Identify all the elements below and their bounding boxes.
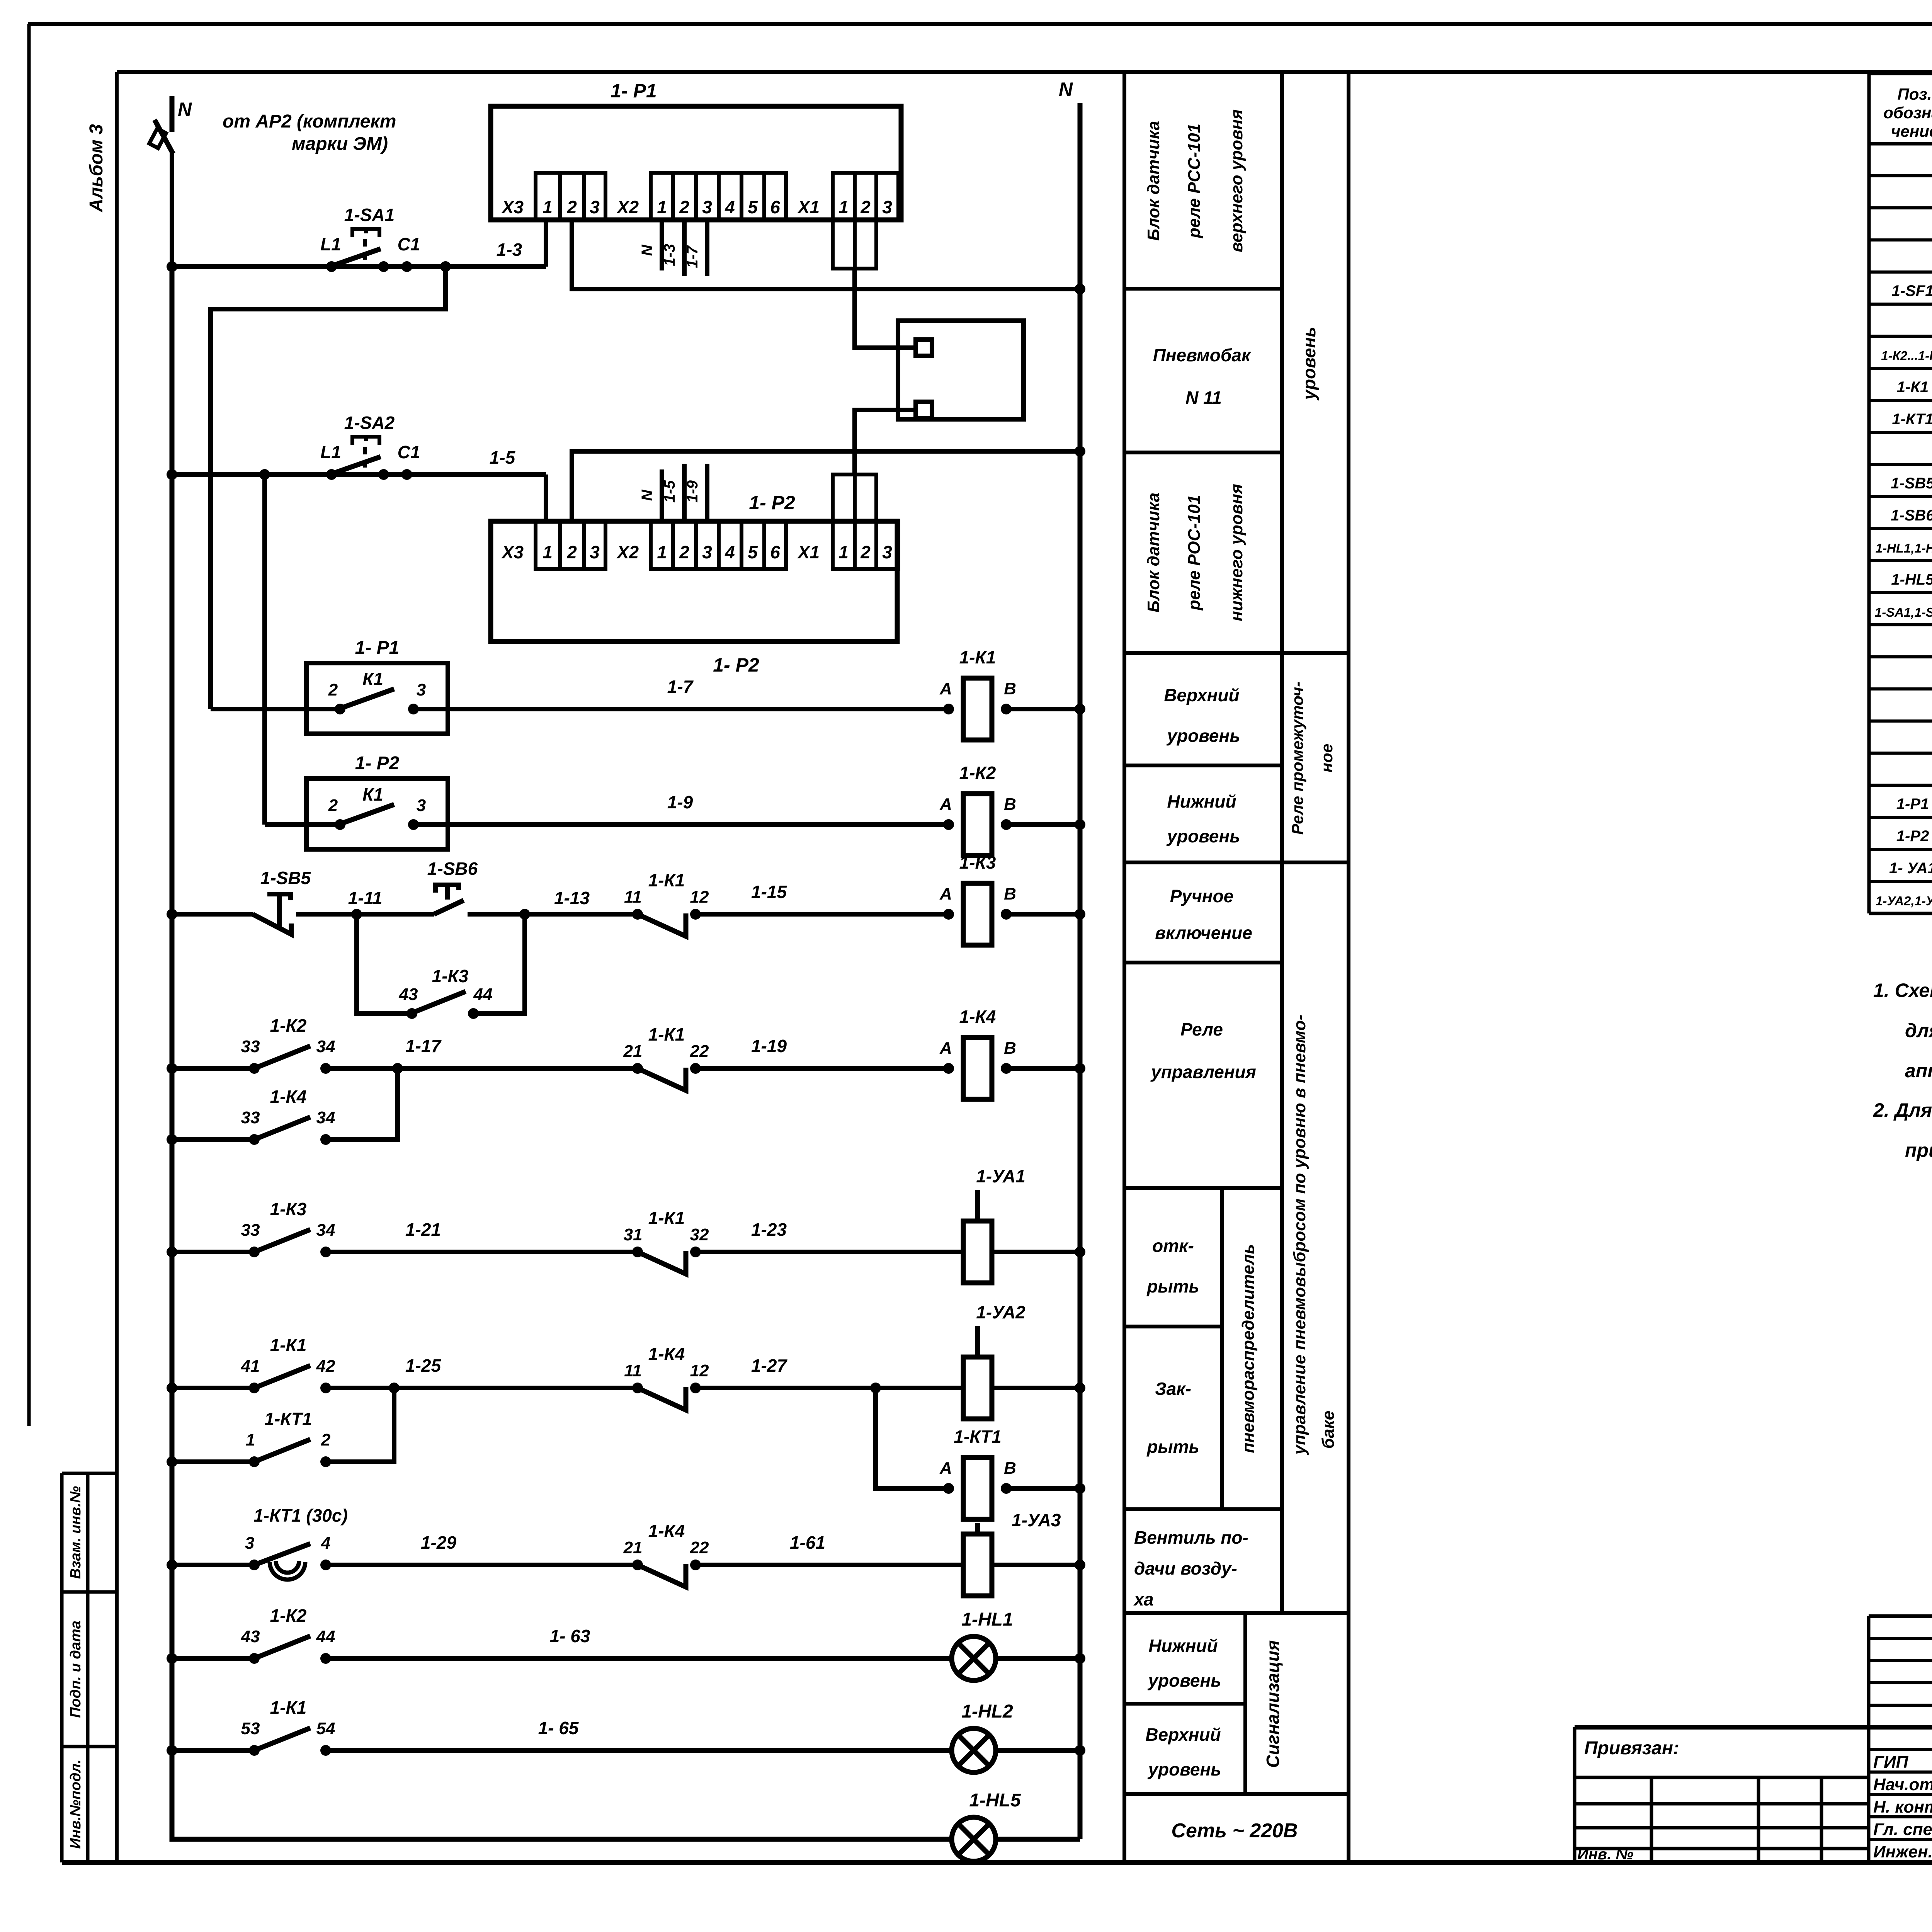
pneumatic tank N11 box — [898, 321, 1024, 419]
label cell отк-рыть — [1146, 1236, 1199, 1296]
wire coil 1-K1 to N rail — [1006, 707, 1080, 711]
relay coil 1-K4 — [939, 1007, 1016, 1099]
svg-text:1-УА1: 1-УА1 — [976, 1166, 1025, 1186]
wire coil 1-K2 to N rail — [1006, 822, 1080, 827]
wire rung 2 (1-SA2, circuit 1-5) — [172, 472, 546, 477]
svg-text:Инжен.: Инжен. — [1873, 1842, 1932, 1861]
svg-text:1-19: 1-19 — [751, 1036, 787, 1056]
svg-text:1-К2: 1-К2 — [270, 1015, 307, 1036]
svg-text:аппаратуры и маркировке: аппаратуры и маркировке цепей о „ 1” на … — [1905, 1060, 1932, 1082]
svg-text:С1: С1 — [398, 442, 420, 462]
svg-text:1: 1 — [246, 1430, 255, 1449]
label cell управление пневмовыбросом по уровню в пневмобаке (rotated) — [1290, 1015, 1338, 1456]
wire rung 7 start — [172, 1250, 254, 1254]
svg-text:1-Р2: 1-Р2 — [1896, 828, 1929, 845]
wire valve 1-UA3 to N rail — [992, 1563, 1080, 1567]
junction for K4 branch — [392, 1063, 403, 1074]
svg-text:32: 32 — [690, 1225, 709, 1244]
svg-text:1-К2: 1-К2 — [270, 1605, 307, 1626]
svg-text:2: 2 — [328, 680, 338, 699]
svg-text:2: 2 — [328, 796, 338, 815]
contact K1 of 1-P2 — [328, 784, 426, 830]
wire label 1-65 to lamp HL2 — [326, 1748, 952, 1753]
svg-text:1-11: 1-11 — [348, 888, 383, 908]
junction on rung 1 — [440, 261, 451, 272]
svg-text:пневмораспределитель: пневмораспределитель — [1239, 1244, 1258, 1453]
relay coil 1-K3 — [939, 852, 1016, 945]
signal lamp 1-HL1 — [952, 1609, 1013, 1680]
wire rung 4 (circuit 1-9) — [265, 822, 340, 827]
svg-text:1-К2...1-К4: 1-К2...1-К4 — [1881, 349, 1932, 363]
svg-text:22: 22 — [690, 1538, 709, 1557]
svg-text:1-15: 1-15 — [751, 882, 787, 902]
svg-text:1-SB6: 1-SB6 — [427, 859, 478, 879]
pneumotank lower level contact square — [916, 402, 932, 418]
svg-text:Инв. №: Инв. № — [1577, 1846, 1633, 1863]
svg-text:5: 5 — [748, 197, 758, 217]
svg-text:53: 53 — [241, 1719, 260, 1738]
svg-text:Гл. спец.: Гл. спец. — [1873, 1820, 1932, 1839]
svg-text:1-SB5: 1-SB5 — [1891, 475, 1932, 492]
wire coil 1-K4 to N rail — [1006, 1066, 1080, 1071]
svg-text:X1: X1 — [797, 197, 820, 217]
wire stubs N,1-3,1-7 under 1-P1 X2 — [660, 220, 664, 270]
wire rung2 down to 1-P2 X3:1 — [544, 474, 548, 521]
svg-text:1-К1: 1-К1 — [270, 1335, 307, 1355]
inner frame top — [117, 70, 1932, 74]
svg-text:1-7: 1-7 — [684, 245, 701, 268]
svg-text:обозна-: обозна- — [1883, 104, 1932, 122]
svg-text:Верхний: Верхний — [1164, 685, 1239, 705]
branch rung with contact 1-KT1 1/2 — [167, 1388, 394, 1467]
wire valve 1-UA2 to N rail — [992, 1386, 1080, 1390]
parts table header — [1883, 85, 1932, 140]
svg-text:1-SA1: 1-SA1 — [344, 205, 395, 225]
svg-text:3: 3 — [590, 542, 600, 562]
wire rung 3 (circuit 1-7) — [211, 707, 340, 711]
svg-text:Блок датчика: Блок датчика — [1144, 121, 1163, 241]
svg-text:11: 11 — [624, 1361, 642, 1380]
svg-text:X3: X3 — [501, 197, 524, 217]
svg-text:ха: ха — [1133, 1589, 1154, 1609]
drawing outer frame top — [28, 22, 1932, 26]
label cell Нижний уровень — [1166, 791, 1240, 846]
svg-text:1-25: 1-25 — [405, 1355, 441, 1376]
switch 1-SA1 — [320, 205, 420, 272]
wire lamp HL5 to N rail — [996, 1837, 1080, 1842]
svg-text:1-7: 1-7 — [667, 677, 694, 697]
svg-text:6: 6 — [770, 197, 780, 217]
svg-text:Поз.: Поз. — [1898, 85, 1932, 103]
svg-text:отк-: отк- — [1152, 1236, 1194, 1256]
svg-text:1-УА2,1-УА3: 1-УА2,1-УА3 — [1876, 894, 1932, 908]
svg-text:Нижний: Нижний — [1148, 1636, 1218, 1656]
svg-text:1-НL2: 1-НL2 — [961, 1701, 1013, 1722]
wire 1-P2 X3:2 to N rail — [572, 451, 1080, 521]
svg-text:1-К1: 1-К1 — [648, 1208, 685, 1228]
svg-text:1-17: 1-17 — [405, 1036, 442, 1056]
svg-text:верхнего уровня: верхнего уровня — [1227, 109, 1246, 252]
svg-text:1-9: 1-9 — [684, 480, 701, 503]
wire after contact, label 1-21 — [326, 1250, 638, 1254]
svg-text:В: В — [1004, 795, 1016, 814]
contact 1-K2 33/34 — [241, 1015, 335, 1074]
svg-text:1-НL5: 1-НL5 — [1891, 571, 1932, 588]
svg-text:1-К1: 1-К1 — [270, 1697, 307, 1718]
contact 1-K1 53/54 — [241, 1697, 335, 1756]
svg-text:1- Р2: 1- Р2 — [713, 654, 759, 676]
left stamp table — [60, 1473, 64, 1862]
svg-text:рыть: рыть — [1146, 1276, 1199, 1296]
svg-text:дачи возду-: дачи возду- — [1134, 1558, 1237, 1578]
label cell Пневмобак N11 — [1153, 345, 1252, 408]
left supply rail L1 — [170, 267, 175, 1839]
svg-text:2: 2 — [679, 542, 689, 562]
wire rung 5 start — [172, 912, 253, 917]
wire after SB6 to junction 1-13 — [468, 912, 638, 917]
svg-text:4: 4 — [321, 1534, 330, 1553]
svg-text:Нижний: Нижний — [1167, 791, 1236, 811]
wire rung 6 start — [172, 1066, 254, 1071]
svg-text:1-НL5: 1-НL5 — [969, 1790, 1021, 1811]
label cell Верхний уровень (signal) — [1145, 1725, 1221, 1779]
svg-text:Реле: Реле — [1180, 1019, 1223, 1039]
svg-text:3: 3 — [245, 1534, 254, 1553]
NC contact 1-K1 21/22 — [623, 1024, 709, 1090]
terminal stub cells above 1-P2 X1 — [833, 474, 855, 521]
svg-text:1- УА1: 1- УА1 — [1889, 860, 1932, 877]
svg-text:1-SA2: 1-SA2 — [344, 413, 395, 433]
svg-text:31: 31 — [624, 1225, 643, 1244]
svg-text:21: 21 — [623, 1538, 643, 1557]
svg-text:Вентиль по-: Вентиль по- — [1134, 1527, 1248, 1548]
solenoid valve coil 1-UA3 — [963, 1510, 1061, 1596]
svg-text:1-К2: 1-К2 — [959, 763, 996, 783]
wire rung1 up to 1-P1 X3:1 — [544, 220, 548, 267]
svg-text:1-5: 1-5 — [661, 480, 678, 503]
inner frame left — [115, 72, 119, 1862]
svg-text:X2: X2 — [616, 542, 639, 562]
wire N entry down to first rung — [170, 153, 174, 267]
svg-text:В: В — [1004, 679, 1016, 698]
svg-text:34: 34 — [316, 1221, 335, 1240]
contact box 1-P1 (K1 upper level) — [306, 663, 448, 734]
timed contact 1-KT1 (30c) 3/4 — [245, 1505, 348, 1580]
contact 1-K2 43/44 — [241, 1605, 335, 1664]
svg-text:1-29: 1-29 — [421, 1532, 456, 1553]
svg-text:X1: X1 — [797, 542, 820, 562]
svg-text:чение: чение — [1891, 122, 1932, 140]
contact 1-K3 33/34 — [241, 1199, 335, 1257]
title block signature table grid — [1869, 1616, 1932, 1862]
wire 1-9 to coil 1-K2 — [413, 822, 949, 827]
label cell Нижний уровень (signal) — [1147, 1636, 1221, 1690]
parts table grid — [1869, 73, 1932, 913]
solenoid valve coil 1-UA2 — [963, 1302, 1026, 1419]
svg-text:12: 12 — [690, 888, 709, 906]
svg-text:1- Р2: 1- Р2 — [355, 753, 400, 774]
svg-text:1- 65: 1- 65 — [538, 1718, 579, 1738]
svg-text:X2: X2 — [616, 197, 639, 217]
svg-text:Н. контр.: Н. контр. — [1873, 1798, 1932, 1816]
svg-text:1: 1 — [543, 542, 553, 562]
svg-text:34: 34 — [316, 1108, 335, 1127]
svg-text:43: 43 — [241, 1627, 260, 1646]
svg-text:Зак-: Зак- — [1155, 1379, 1191, 1399]
NC contact 1-K1 11/12 — [624, 870, 709, 936]
svg-text:ГИП: ГИП — [1873, 1753, 1909, 1772]
svg-text:Сигнализация: Сигнализация — [1263, 1640, 1283, 1768]
svg-text:42: 42 — [316, 1357, 335, 1376]
wire label 1-15 to coil 1-K3 — [696, 912, 949, 917]
svg-text:1-К3: 1-К3 — [270, 1199, 307, 1219]
signal lamp 1-HL5 — [952, 1790, 1021, 1861]
label cell Реле промежуточное (rotated) — [1288, 682, 1336, 835]
svg-text:нижнего уровня: нижнего уровня — [1227, 484, 1246, 621]
svg-text:2: 2 — [321, 1430, 331, 1449]
svg-text:6: 6 — [770, 542, 780, 562]
disconnect switch on N input — [155, 120, 173, 154]
junction on rung 2 — [259, 469, 270, 480]
junction to 1-KT1 coil branch — [870, 1383, 881, 1393]
svg-text:1-УА3: 1-УА3 — [1012, 1510, 1061, 1530]
svg-text:1-К3: 1-К3 — [432, 966, 469, 986]
svg-text:реле РСС-101: реле РСС-101 — [1185, 124, 1204, 238]
svg-text:В: В — [1004, 1459, 1016, 1478]
svg-text:N: N — [178, 99, 192, 120]
svg-text:от АР2 (комплект: от АР2 (комплект — [223, 111, 396, 132]
self-hold branch via contact 1-K3 43/44 — [357, 914, 525, 1019]
svg-text:43: 43 — [399, 985, 418, 1004]
wire 1-P1 X1 to pneumatic tank upper contact — [855, 269, 916, 348]
svg-text:управление пневмовыбросом по: управление пневмовыбросом по уровню в пн… — [1290, 1015, 1309, 1456]
svg-text:рыть: рыть — [1146, 1437, 1199, 1457]
svg-text:А: А — [939, 679, 952, 698]
relay coil 1-K1 — [939, 647, 1016, 740]
wire rung 8 start — [172, 1386, 254, 1390]
svg-text:1: 1 — [657, 542, 667, 562]
svg-text:Реле промежуточ-: Реле промежуточ- — [1288, 682, 1306, 835]
svg-text:2: 2 — [566, 197, 577, 217]
svg-text:реле РОС-101: реле РОС-101 — [1185, 495, 1204, 611]
label cell Зак-рыть — [1146, 1379, 1199, 1457]
wire rung 10 start — [172, 1563, 254, 1567]
pneumotank upper level contact square — [916, 340, 932, 356]
svg-text:L1: L1 — [320, 442, 341, 462]
svg-text:3: 3 — [882, 197, 892, 217]
time relay coil 1-KT1 — [939, 1427, 1016, 1519]
svg-text:4: 4 — [724, 197, 735, 217]
svg-text:34: 34 — [316, 1037, 335, 1056]
svg-text:1- Р1: 1- Р1 — [611, 80, 657, 102]
svg-text:управления: управления — [1150, 1062, 1256, 1082]
wire label 1-23 to valve 1-UA1 — [696, 1250, 963, 1254]
svg-text:2: 2 — [566, 542, 577, 562]
contact K1 of 1-P1 — [328, 669, 426, 714]
svg-text:1-23: 1-23 — [751, 1219, 787, 1240]
label cell Блок датчика реле РОС-101 нижнего уровня — [1144, 484, 1246, 621]
svg-text:1- Р1: 1- Р1 — [355, 638, 400, 658]
svg-text:1-SА1,1-SА2: 1-SА1,1-SА2 — [1875, 605, 1932, 619]
svg-text:1: 1 — [657, 197, 667, 217]
wire after contact, label 1-29 — [326, 1563, 638, 1567]
svg-text:54: 54 — [316, 1719, 335, 1738]
svg-text:1-5: 1-5 — [490, 447, 516, 468]
svg-text:для другого пневмобака с з: для другого пневмобака с заменой индекса… — [1905, 1020, 1932, 1041]
svg-text:N: N — [1059, 78, 1073, 100]
svg-text:Альбом 3: Альбом 3 — [86, 124, 107, 213]
svg-text:N 11: N 11 — [1185, 388, 1222, 408]
svg-text:X3: X3 — [501, 542, 524, 562]
svg-text:44: 44 — [316, 1627, 335, 1646]
svg-text:А: А — [939, 1039, 952, 1058]
wire rung 1 (1-SA1, circuit 1-3) — [172, 264, 546, 269]
wire lamp HL2 to N rail — [996, 1748, 1080, 1753]
contact box 1-P2 (K1 lower level) — [306, 779, 448, 849]
wire feeder from rung2 down to 1-P2 K1 rung — [262, 474, 267, 825]
svg-text:3: 3 — [882, 542, 892, 562]
junction node 1-11 — [351, 909, 362, 920]
svg-text:33: 33 — [241, 1108, 260, 1127]
svg-text:1-9: 1-9 — [667, 792, 693, 812]
level sensor relay block 1-P1 — [491, 80, 901, 220]
svg-text:Блок датчика: Блок датчика — [1144, 493, 1163, 613]
svg-text:1-SB6: 1-SB6 — [1891, 507, 1932, 524]
svg-text:L1: L1 — [320, 234, 341, 254]
parallel branch contact 1-K4 33/34 — [167, 1068, 398, 1145]
NC contact 1-K4 11/12 — [624, 1344, 709, 1410]
svg-text:1: 1 — [543, 197, 553, 217]
svg-text:N: N — [639, 244, 656, 256]
svg-text:Подп. и дата: Подп. и дата — [68, 1621, 84, 1718]
NC contact 1-K4 21/22 — [623, 1521, 709, 1587]
svg-text:1-3: 1-3 — [497, 240, 522, 260]
svg-text:2: 2 — [679, 197, 689, 217]
svg-text:Сеть ~ 220В: Сеть ~ 220В — [1171, 1820, 1298, 1842]
level sensor relay block 1-P2 — [491, 492, 898, 676]
svg-text:21: 21 — [623, 1042, 643, 1061]
svg-text:уровень: уровень — [1147, 1670, 1221, 1690]
svg-text:Привязан:: Привязан: — [1584, 1738, 1679, 1759]
label cell Блок датчика реле РСС-101 верхнего уровня — [1144, 109, 1246, 252]
svg-text:1-3: 1-3 — [661, 244, 678, 266]
svg-text:2: 2 — [860, 197, 871, 217]
svg-text:22: 22 — [690, 1042, 709, 1061]
junction node 1-13 — [519, 909, 530, 920]
svg-text:1-К4: 1-К4 — [270, 1087, 307, 1107]
wire lamp HL1 to N rail — [996, 1656, 1080, 1661]
svg-text:1-27: 1-27 — [751, 1355, 787, 1376]
svg-text:1-К1: 1-К1 — [959, 647, 996, 667]
svg-text:1-К4: 1-К4 — [648, 1344, 685, 1364]
svg-text:1-КТ1: 1-КТ1 — [1892, 411, 1932, 428]
wire label 1-61 to valve 1-UA3 — [696, 1563, 963, 1567]
svg-text:Взам. инв.№: Взам. инв.№ — [68, 1486, 84, 1579]
svg-text:N: N — [639, 489, 656, 501]
NC contact 1-K1 31/32 — [624, 1208, 709, 1274]
wire 1-P1 X3:2 to N rail — [572, 220, 1080, 289]
wire coil 1-KT1 to N rail — [1006, 1486, 1080, 1491]
svg-text:1- 63: 1- 63 — [550, 1626, 590, 1646]
wire rung 12 start — [172, 1748, 254, 1753]
svg-text:баке: баке — [1319, 1411, 1338, 1449]
svg-text:1-13: 1-13 — [554, 888, 590, 908]
svg-text:Пневмобак: Пневмобак — [1153, 345, 1252, 365]
svg-text:1: 1 — [838, 542, 849, 562]
svg-text:А: А — [939, 884, 952, 903]
svg-text:44: 44 — [473, 985, 493, 1004]
wire 1-7 to coil 1-K1 — [413, 707, 949, 711]
svg-text:1-К1: 1-К1 — [648, 870, 685, 890]
wire label 1-63 to lamp HL1 — [326, 1656, 952, 1661]
svg-text:1-Р1: 1-Р1 — [1896, 796, 1929, 813]
svg-text:1-К4: 1-К4 — [959, 1007, 996, 1027]
svg-text:11: 11 — [624, 888, 642, 906]
start pushbutton 1-SB6 — [427, 859, 478, 914]
solenoid valve coil 1-UA1 — [963, 1166, 1026, 1283]
relay coil 1-K2 — [939, 763, 1016, 855]
stop pushbutton 1-SB5 — [253, 868, 311, 934]
wire rung 11 start — [172, 1656, 254, 1661]
svg-text:1-К4: 1-К4 — [648, 1521, 685, 1541]
svg-text:3: 3 — [590, 197, 600, 217]
switch 1-SA2 — [320, 413, 420, 480]
svg-text:1-КТ1: 1-КТ1 — [954, 1427, 1001, 1447]
wire label 1-19 to coil 1-K4 — [696, 1066, 949, 1071]
svg-text:1-SF1: 1-SF1 — [1892, 282, 1932, 299]
wire coil 1-K3 to N rail — [1006, 912, 1080, 917]
svg-text:2. Для прибора 1- Р2 сде: 2. Для прибора 1- Р2 сделать перемычку д… — [1873, 1099, 1932, 1121]
wire pneumotank lower contact to 1-P2 X1 — [855, 410, 916, 474]
svg-text:5: 5 — [748, 542, 758, 562]
svg-text:1-21: 1-21 — [405, 1219, 441, 1240]
svg-text:Нач.отд.: Нач.отд. — [1873, 1775, 1932, 1794]
svg-text:1-НL1: 1-НL1 — [961, 1609, 1013, 1630]
svg-text:уровень: уровень — [1147, 1759, 1221, 1779]
svg-text:1-НL1,1-НL2: 1-НL1,1-НL2 — [1876, 541, 1932, 555]
svg-text:41: 41 — [241, 1357, 260, 1376]
wire label 1-27 to valve 1-UA2 — [696, 1386, 963, 1390]
svg-text:В: В — [1004, 884, 1016, 903]
svg-text:1-К3: 1-К3 — [959, 852, 996, 872]
svg-text:уровень: уровень — [1166, 826, 1240, 846]
label cell Реле управления — [1150, 1019, 1256, 1082]
svg-text:уровень: уровень — [1166, 726, 1240, 746]
frame bottom line — [62, 1860, 1932, 1865]
svg-text:4: 4 — [724, 542, 735, 562]
label cell Верхний уровень — [1164, 685, 1240, 746]
svg-text:1-КТ1: 1-КТ1 — [264, 1409, 312, 1429]
label cell Вентиль подачи воздуха — [1133, 1527, 1248, 1609]
branch to time relay coil 1-KT1 — [876, 1388, 949, 1488]
label cell Ручное включение — [1155, 886, 1252, 943]
svg-text:включение: включение — [1155, 923, 1252, 943]
svg-text:К1: К1 — [362, 669, 383, 689]
node N input (left) — [170, 96, 175, 132]
svg-text:1. Схема выполнена для одно: 1. Схема выполнена для одного пневмобака… — [1873, 980, 1932, 1001]
svg-text:3: 3 — [702, 542, 712, 562]
svg-text:2: 2 — [860, 542, 871, 562]
wire stubs N,1-5,1-9 above 1-P2 X2 — [660, 469, 664, 521]
svg-text:1-61: 1-61 — [790, 1532, 825, 1553]
svg-text:В: В — [1004, 1039, 1016, 1058]
svg-text:1-КТ1 (30с): 1-КТ1 (30с) — [253, 1505, 348, 1526]
wire after contact, label 1-25 — [326, 1386, 638, 1390]
wire valve 1-UA1 to N rail — [992, 1250, 1080, 1254]
svg-text:1- Р2: 1- Р2 — [749, 492, 795, 514]
function label column grid — [1124, 72, 1349, 1862]
svg-text:марки ЭМ): марки ЭМ) — [292, 134, 388, 154]
